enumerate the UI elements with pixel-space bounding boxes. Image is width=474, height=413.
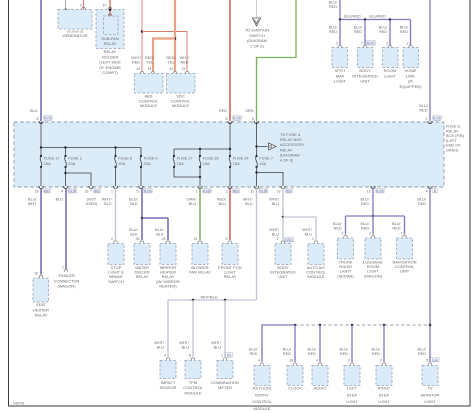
- svg-text:B198: B198: [233, 116, 241, 120]
- wire fuse 9 to exit 5: [140, 167, 142, 186]
- svg-text:i5: i5: [434, 189, 437, 193]
- wire drop to body integrated unit: [282, 217, 284, 240]
- svg-text:RED: RED: [392, 227, 400, 231]
- exit pin 1 B198 blower: [198, 186, 202, 189]
- exit pin 2 B60 fog: [228, 186, 232, 189]
- generator GEN1 box: [58, 10, 92, 30]
- svg-text:B60: B60: [94, 189, 100, 193]
- svg-text:UNIT: UNIT: [278, 274, 288, 279]
- wire WHT/BLU to body integrated unit: [282, 188, 284, 217]
- svg-text:RED: RED: [340, 352, 348, 356]
- fuse F24 15A: [229, 149, 231, 156]
- svg-text:LIGHT: LIGHT: [334, 79, 346, 84]
- svg-text:RED/: RED/: [217, 198, 227, 202]
- wire RED/YEL thick orange from top: [174, 0, 176, 71]
- svg-text:2: 2: [111, 237, 113, 241]
- svg-text:BLU/: BLU/: [372, 348, 381, 352]
- node junction below fuse 7: [255, 171, 257, 173]
- svg-text:MAP: MAP: [336, 73, 345, 78]
- node bus junction fuse 1: [64, 146, 66, 148]
- svg-text:(LEFT SIDE: (LEFT SIDE: [99, 60, 121, 65]
- svg-text:(WAGON): (WAGON): [57, 284, 76, 289]
- wire fuse 27 elbow join fuse 28: [174, 167, 200, 177]
- svg-text:B280: B280: [367, 41, 375, 45]
- svg-text:1: 1: [196, 190, 198, 194]
- fuse F28 15A: [199, 149, 201, 156]
- svg-text:BLU/: BLU/: [392, 222, 401, 226]
- svg-text:FUSE 7: FUSE 7: [259, 155, 273, 160]
- svg-text:HOLDER: HOLDER: [102, 54, 119, 59]
- svg-text:BLU: BLU: [305, 233, 313, 237]
- svg-text:AUDIO: AUDIO: [314, 386, 327, 391]
- svg-text:2 OF 6): 2 OF 6): [250, 43, 264, 48]
- svg-text:BLK: BLK: [130, 233, 138, 237]
- svg-text:(DIAGRAM: (DIAGRAM: [247, 38, 267, 43]
- svg-text:3: 3: [386, 42, 388, 46]
- wire BLU/RED long drop to tv monitor: [429, 188, 431, 362]
- svg-text:WHT/: WHT/: [102, 198, 113, 202]
- wire drop to mirror heater relay: [167, 218, 169, 240]
- dashed accessory bus: [295, 324, 430, 326]
- svg-text:LINK: LINK: [406, 73, 415, 78]
- svg-text:FUSE 9: FUSE 9: [144, 155, 158, 160]
- blower fan relay K5 box: [192, 244, 208, 265]
- svg-text:BLU/: BLU/: [283, 348, 292, 352]
- wire drop to right step light: [383, 325, 385, 362]
- seat heater relay K2 box: [33, 278, 49, 302]
- node junction BLU/BLK split: [141, 217, 144, 220]
- wire BLU/WHT to seat heater relay: [40, 188, 42, 275]
- svg-text:4: 4: [164, 354, 166, 358]
- svg-text:RED: RED: [308, 352, 316, 356]
- svg-text:BLU: BLU: [189, 202, 197, 206]
- svg-text:WHT/: WHT/: [269, 198, 280, 202]
- svg-text:RED: RED: [379, 30, 387, 34]
- svg-text:BLU/RED: BLU/RED: [369, 15, 386, 19]
- svg-text:GRN: GRN: [245, 109, 254, 113]
- svg-text:BLU: BLU: [104, 202, 112, 206]
- svg-text:13: 13: [136, 67, 140, 71]
- wire branch to accessory relay arrow: [257, 146, 268, 148]
- svg-text:BLU/: BLU/: [333, 222, 342, 226]
- front fog light relay K6 box: [222, 244, 238, 265]
- node junction combination meter drop: [224, 299, 227, 302]
- svg-text:TO IGNITION: TO IGNITION: [245, 28, 269, 33]
- wire drop to spot map light: [339, 20, 341, 46]
- svg-text:RED: RED: [419, 109, 427, 113]
- svg-text:BLU/: BLU/: [129, 228, 138, 232]
- svg-text:EQUIPPED): EQUIPPED): [399, 84, 422, 89]
- exit pin 11 B198: [254, 186, 258, 189]
- svg-text:i10: i10: [227, 353, 232, 357]
- svg-text:BLU: BLU: [56, 198, 64, 202]
- svg-text:BLU: BLU: [214, 346, 222, 350]
- wire drop to audio: [319, 325, 321, 362]
- svg-text:BLU/: BLU/: [419, 104, 428, 108]
- node junction right step: [383, 324, 386, 327]
- wire drop to impact sensor: [167, 300, 169, 357]
- svg-text:LIGHT: LIGHT: [346, 399, 358, 404]
- svg-text:DASH): DASH): [446, 148, 459, 153]
- svg-text:10: 10: [34, 272, 38, 276]
- sub-fan relay holder box: [96, 10, 124, 49]
- svg-text:BLU/: BLU/: [129, 198, 138, 202]
- svg-text:BLU/: BLU/: [155, 228, 164, 232]
- svg-text:RED: RED: [249, 352, 257, 356]
- svg-text:BLU/: BLU/: [329, 1, 338, 5]
- fuse F27 15A: [173, 149, 175, 156]
- svg-text:5: 5: [426, 359, 428, 363]
- svg-text:4: 4: [426, 190, 428, 194]
- svg-text:WHT/: WHT/: [211, 341, 222, 345]
- home link U4 box: [403, 48, 419, 68]
- svg-text:BLU/: BLU/: [400, 26, 409, 30]
- wire branch to exit 19: [257, 173, 284, 187]
- svg-text:WHT/: WHT/: [179, 341, 190, 345]
- wire BLU feed from top to fuse box pin 6: [40, 0, 42, 121]
- svg-text:OF ENGINE: OF ENGINE: [99, 65, 121, 70]
- exit pin 4 B198: [63, 186, 67, 189]
- link label B280: [367, 41, 376, 45]
- svg-text:RELAY: RELAY: [104, 41, 117, 46]
- svg-text:5: 5: [252, 117, 254, 121]
- node junction TPM drop: [192, 299, 195, 302]
- wire fuse 8 to exit 1: [115, 167, 117, 186]
- svg-text:WHT: WHT: [28, 202, 37, 206]
- wire WHT/RED branch to VDC pin 23: [142, 32, 187, 72]
- svg-text:BLU: BLU: [157, 346, 165, 350]
- wire BLU/RED right feed from top to fuse box pin 2: [429, 0, 431, 121]
- wire BLU/BLK branch bus: [142, 217, 168, 219]
- svg-text:15A: 15A: [259, 161, 266, 166]
- wire RED thick to sub-fan relay: [109, 0, 111, 16]
- room light E2 box: [383, 48, 399, 68]
- svg-text:7: 7: [401, 232, 403, 236]
- svg-text:BLU/: BLU/: [308, 348, 317, 352]
- svg-text:2: 2: [342, 232, 344, 236]
- svg-text:COMBINATION: COMBINATION: [211, 380, 239, 385]
- svg-text:15A: 15A: [44, 161, 51, 166]
- svg-text:9: 9: [226, 237, 228, 241]
- svg-text:LEFT: LEFT: [347, 386, 357, 391]
- svg-text:FAN RELAY: FAN RELAY: [189, 270, 211, 275]
- wire BLU/RED room lights bus: [346, 215, 405, 217]
- svg-text:240733: 240733: [13, 402, 24, 406]
- svg-text:B198: B198: [376, 189, 384, 193]
- node junction clock: [294, 324, 297, 327]
- node junction on generator top: [64, 9, 67, 12]
- svg-text:33: 33: [136, 237, 140, 241]
- svg-text:BLU/: BLU/: [361, 222, 370, 226]
- arrow to ignition switch: [252, 18, 260, 26]
- exit pin 13 B198: [371, 186, 375, 189]
- svg-text:BLK: BLK: [156, 233, 164, 237]
- svg-text:KEYLESS: KEYLESS: [253, 386, 272, 391]
- svg-text:RED: RED: [333, 227, 341, 231]
- svg-text:14: 14: [148, 67, 152, 71]
- spot map light E1 box: [332, 48, 348, 68]
- wire drop to room light: [389, 20, 391, 46]
- fuse F8 20A: [115, 148, 117, 157]
- svg-text:RIGHT: RIGHT: [378, 386, 391, 391]
- link label B198 entry 2: [433, 116, 442, 120]
- node junction accessory relay branch: [255, 145, 257, 147]
- wire fuse 7 to exit 11 with branch: [256, 167, 258, 186]
- svg-text:SENSOR: SENSOR: [160, 385, 177, 390]
- svg-text:HEATER: HEATER: [33, 307, 49, 312]
- svg-text:1: 1: [111, 190, 113, 194]
- svg-text:RED: RED: [329, 5, 337, 9]
- svg-text:1C: 1C: [103, 4, 108, 8]
- svg-text:2: 2: [380, 359, 382, 363]
- svg-text:RED: RED: [400, 30, 408, 34]
- svg-text:CONTROL: CONTROL: [183, 385, 203, 390]
- wire RED/YEL branch to ABS pin 14: [153, 39, 175, 72]
- exit pin 4 i5: [428, 186, 432, 189]
- svg-text:B198: B198: [144, 189, 152, 193]
- fuse F7 15A: [256, 156, 258, 167]
- svg-text:INTEGRATED: INTEGRATED: [352, 73, 378, 78]
- svg-text:8: 8: [226, 117, 228, 121]
- svg-text:BLU/: BLU/: [249, 348, 258, 352]
- svg-text:ENTRY: ENTRY: [255, 392, 269, 397]
- svg-text:BLU: BLU: [219, 202, 227, 206]
- node junction at relay holder edge: [109, 9, 112, 12]
- svg-text:2: 2: [407, 42, 409, 46]
- svg-text:BLU/: BLU/: [329, 26, 338, 30]
- svg-text:RED: RED: [361, 227, 369, 231]
- fuse F1 20A: [65, 148, 67, 157]
- exit pin 18 B60: [39, 186, 43, 189]
- svg-text:10: 10: [289, 359, 293, 363]
- link label B198 entry 6: [44, 116, 53, 120]
- wire pin5 feed to fuse 7: [256, 122, 258, 156]
- svg-text:CONNECTOR: CONNECTOR: [54, 278, 80, 283]
- node bus junction entry 6: [40, 146, 42, 148]
- svg-text:IMPACT: IMPACT: [161, 380, 176, 385]
- svg-text:1: 1: [312, 237, 314, 241]
- node bus junction fuse 24: [229, 148, 231, 150]
- svg-text:WHT/: WHT/: [154, 341, 165, 345]
- svg-text:BLU: BLU: [182, 346, 190, 350]
- auto A/C control module U6 box: [308, 244, 324, 265]
- svg-text:SWITCH: SWITCH: [108, 279, 124, 284]
- svg-text:2: 2: [336, 42, 338, 46]
- svg-text:COMPT): COMPT): [102, 70, 118, 75]
- svg-text:RED: RED: [219, 109, 227, 113]
- sub-fan relay K1 inner box: [104, 16, 119, 35]
- svg-text:STEP: STEP: [379, 392, 390, 397]
- svg-text:UNIT: UNIT: [400, 269, 410, 274]
- svg-text:BLU/RED: BLU/RED: [344, 15, 361, 19]
- svg-text:4: 4: [61, 190, 63, 194]
- wire BLU/BLK to deicer and mirror relays: [141, 188, 143, 218]
- VDC control module U2 box: [167, 74, 196, 94]
- svg-text:RED: RED: [329, 30, 337, 34]
- fuse and relay box F/B: [14, 122, 444, 187]
- svg-text:B198: B198: [69, 189, 77, 193]
- wire drop to TPM control module: [192, 300, 194, 357]
- svg-text:1: 1: [221, 354, 223, 358]
- svg-text:BLU: BLU: [272, 202, 280, 206]
- svg-text:2: 2: [226, 190, 228, 194]
- svg-text:RED: RED: [132, 61, 140, 65]
- water deicer relay K3 box: [134, 244, 150, 265]
- node junction fuse 27/28 join: [199, 176, 201, 178]
- exit pin 5 B198: [139, 186, 143, 189]
- svg-text:11: 11: [250, 190, 254, 194]
- exit pin 19 B60: [281, 186, 285, 189]
- svg-text:(NOT: (NOT: [87, 198, 97, 202]
- svg-text:B198: B198: [260, 189, 268, 193]
- wire GRN/BLU to blower fan relay: [199, 188, 201, 240]
- wire BLU/RED lamp bus: [340, 19, 411, 21]
- svg-text:LIGHT: LIGHT: [424, 399, 436, 404]
- wire RED/BLU to front fog light relay: [229, 188, 231, 240]
- svg-text:RED: RED: [418, 352, 426, 356]
- node junction spot map light: [339, 18, 342, 21]
- svg-text:WHT/: WHT/: [131, 56, 142, 60]
- svg-text:UNIT: UNIT: [360, 79, 370, 84]
- wire branch to not-used exit 23: [66, 173, 92, 186]
- svg-text:FUSE 1: FUSE 1: [68, 155, 82, 160]
- svg-text:2: 2: [348, 359, 350, 363]
- svg-text:15A: 15A: [177, 161, 184, 166]
- wire fuse 24 to exit 2: [229, 167, 231, 186]
- svg-text:BLU: BLU: [30, 109, 38, 113]
- svg-text:15A: 15A: [203, 161, 210, 166]
- svg-text:YEL: YEL: [167, 61, 174, 65]
- svg-text:RED: RED: [354, 30, 362, 34]
- wire fuse bus segment 2: [174, 148, 230, 150]
- fuse F17 15A: [40, 148, 42, 157]
- svg-text:BLU/: BLU/: [418, 198, 427, 202]
- svg-text:BLU: BLU: [272, 233, 280, 237]
- svg-text:FUSE 28: FUSE 28: [203, 155, 219, 160]
- node junction RED/YEL split: [174, 37, 177, 40]
- svg-text:6: 6: [37, 117, 39, 121]
- node junction room light: [389, 18, 392, 21]
- svg-text:13: 13: [367, 190, 371, 194]
- node bus junction fuse 8: [114, 146, 116, 148]
- wire drop to luggage room light: [372, 216, 374, 235]
- wire gray stub to generator: [65, 0, 67, 10]
- wire drop to home link: [410, 20, 412, 46]
- svg-text:WHT/: WHT/: [302, 228, 313, 232]
- wire drop to water deicer relay: [141, 218, 143, 240]
- svg-text:7: 7: [361, 42, 363, 46]
- svg-text:RED/: RED/: [166, 56, 176, 60]
- svg-text:29: 29: [162, 237, 166, 241]
- svg-text:METER: METER: [218, 385, 232, 390]
- svg-text:YEL: YEL: [146, 61, 153, 65]
- svg-text:B60: B60: [286, 189, 292, 193]
- mirror heater relay K4 box: [160, 244, 176, 265]
- svg-text:(WAGON): (WAGON): [364, 273, 383, 278]
- wire BLU/RED keyless branch: [262, 325, 295, 362]
- svg-text:SWITCH: SWITCH: [249, 33, 265, 38]
- svg-text:MODULE: MODULE: [253, 406, 270, 411]
- svg-text:RED: RED: [372, 352, 380, 356]
- svg-text:LIGHT: LIGHT: [384, 73, 396, 78]
- svg-text:HOME: HOME: [405, 68, 417, 73]
- svg-text:4 OF 6): 4 OF 6): [280, 158, 294, 163]
- svg-text:USED): USED): [86, 202, 99, 206]
- node junction left step: [351, 324, 354, 327]
- node junction BLU/RED split: [372, 215, 375, 218]
- wire BLU/RED from top to lamp bus: [339, 0, 341, 20]
- svg-text:(IF: (IF: [408, 79, 413, 84]
- wire drop to combination meter: [224, 300, 226, 357]
- navigation control unit U7 box: [397, 238, 413, 259]
- wire WHT/BLU to sensor bus: [256, 188, 258, 300]
- node junction WHT/RED split: [141, 30, 144, 33]
- svg-text:B60: B60: [44, 189, 50, 193]
- svg-text:ROOM: ROOM: [384, 68, 396, 73]
- svg-text:18: 18: [35, 190, 39, 194]
- fuse F9 20A: [140, 148, 142, 157]
- svg-text:CLOCK: CLOCK: [288, 386, 302, 391]
- wire GRN from top elbow to fuse box pin 5: [257, 0, 297, 121]
- svg-text:SEAT: SEAT: [36, 302, 47, 307]
- svg-text:TPM: TPM: [189, 380, 197, 385]
- wire gray stub to ignition arrow: [256, 0, 258, 18]
- exit pin 23 B60 not used: [89, 186, 93, 189]
- wire fuse bus segment 1: [41, 147, 141, 149]
- node junction body integrated unit: [364, 18, 367, 21]
- stop light and brake switch S1 box: [108, 244, 124, 265]
- svg-text:MODULE: MODULE: [172, 103, 189, 108]
- svg-text:RED: RED: [283, 352, 291, 356]
- wire fuse 1 to exit 4 with branch: [65, 167, 67, 186]
- svg-text:WHT/: WHT/: [180, 56, 191, 60]
- link label B198 entry 8: [233, 116, 242, 120]
- wire BLU/RED to room lights bus: [372, 188, 374, 216]
- svg-text:i116: i116: [432, 358, 438, 362]
- svg-text:2: 2: [80, 4, 82, 8]
- svg-text:HEATER): HEATER): [159, 283, 177, 288]
- arrow to accessory relay: [269, 143, 277, 150]
- svg-text:RELAY: RELAY: [104, 49, 117, 54]
- svg-text:TV: TV: [427, 386, 432, 391]
- svg-text:19: 19: [277, 190, 281, 194]
- svg-text:WHT/: WHT/: [269, 228, 280, 232]
- svg-text:23: 23: [182, 67, 186, 71]
- svg-text:RED: RED: [361, 202, 369, 206]
- svg-text:B60: B60: [233, 189, 239, 193]
- svg-text:BLU/: BLU/: [379, 26, 388, 30]
- svg-text:20A: 20A: [118, 161, 125, 166]
- svg-text:FUSE 24: FUSE 24: [233, 155, 250, 160]
- node junction tv bus: [429, 324, 432, 327]
- wire stub not used: [90, 188, 92, 192]
- wire fuse 17 to exit 18: [40, 167, 42, 186]
- wire drop to body integrated unit: [364, 20, 366, 46]
- svg-text:4: 4: [258, 359, 260, 363]
- wire drop to trunk room light: [345, 216, 347, 235]
- svg-text:FUSE 8: FUSE 8: [118, 155, 132, 160]
- svg-text:BLU/: BLU/: [418, 348, 427, 352]
- wire RED to generator pin 2: [83, 0, 85, 10]
- svg-text:RELAY: RELAY: [224, 274, 237, 279]
- svg-text:5: 5: [137, 190, 139, 194]
- link label B281: [285, 237, 294, 241]
- wire BLU to trailer connector: [65, 188, 67, 269]
- svg-text:MODULE: MODULE: [140, 103, 157, 108]
- svg-text:B198: B198: [203, 189, 211, 193]
- svg-text:TRAILER: TRAILER: [58, 273, 75, 278]
- svg-text:WHT/BLU: WHT/BLU: [200, 296, 217, 300]
